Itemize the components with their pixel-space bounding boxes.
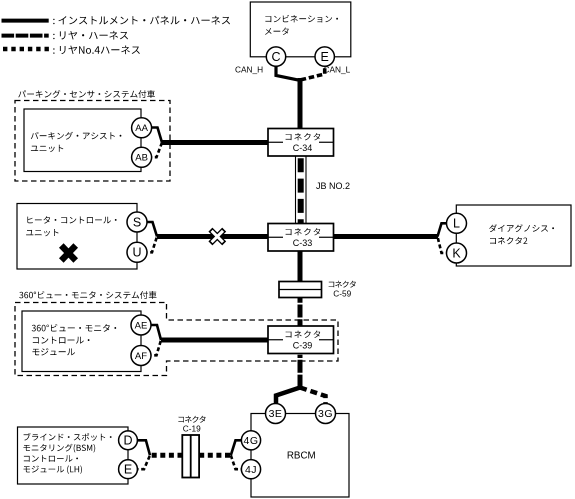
connector C-33 label (286, 228, 321, 235)
pin L (447, 213, 467, 233)
wire CAN_L from meter pin E to bus junction (dashed) (301, 60, 325, 80)
svg-text:3E: 3E (269, 408, 283, 420)
pin AE (131, 315, 151, 335)
connector C-39 label (286, 331, 321, 338)
360 view module label line2 (33, 337, 90, 344)
wire branch to RBCM pin 4G (231, 440, 251, 455)
combination meter label line1 (265, 15, 338, 23)
svg-text:RBCM: RBCM (287, 450, 316, 461)
parking assist unit label line1 (31, 132, 122, 140)
connector C-34 label (286, 133, 321, 140)
BSM label line2 (24, 444, 96, 453)
pin 4G (241, 431, 260, 450)
svg-text:C-34: C-34 (293, 143, 313, 153)
wire heater pin U branch (dashed) (137, 237, 157, 253)
svg-text:C-59: C-59 (333, 288, 351, 298)
wire main CAN bus vertical: junction to connector C-34 (298, 78, 303, 140)
svg-text:E: E (321, 50, 329, 64)
diagnosis connector 2 box (456, 205, 571, 266)
pin AA (132, 118, 152, 138)
svg-text:AE: AE (135, 320, 148, 331)
wire fork to RBCM pin 3G (dashed) (300, 388, 326, 410)
360 view system condition label (19, 291, 156, 299)
connector C-59 label (329, 281, 356, 288)
heater control unit box (17, 204, 137, 270)
svg-text:L: L (453, 217, 460, 231)
svg-text:AB: AB (135, 153, 148, 164)
connector C-19 box (182, 435, 199, 478)
svg-text:AF: AF (135, 351, 147, 362)
legend: rear No.4 harness (dotted) (3, 47, 49, 52)
wire rear harness connector C-59 to connector C-39 (thick dashed) (298, 297, 303, 326)
svg-text:CAN_H: CAN_H (235, 65, 263, 75)
legend label 3 (53, 46, 140, 55)
wire BSM pin D branch (128, 440, 150, 455)
wire rear No.4 harness BSM to connector C-19 (dotted) (150, 453, 183, 458)
BSM label line1 (24, 433, 112, 441)
wire 360-view module to connector C-39 (161, 338, 270, 343)
wire heater to connector C-33 (157, 234, 270, 239)
svg-text:AA: AA (135, 123, 148, 134)
combination meter box (250, 2, 350, 57)
wire parking pin AB branch (dashed) (142, 143, 162, 158)
svg-text:3G: 3G (318, 408, 333, 420)
BSM control module box (18, 427, 129, 484)
360 view module label line1 (32, 324, 117, 332)
splice X mark on heater wire (outlined) (210, 230, 224, 244)
svg-text:C: C (271, 50, 280, 64)
wire diagnosis pin K branch (dashed) (438, 237, 457, 254)
parking sensor system dashed enclosure (15, 101, 170, 182)
heater control unit label line1 (27, 216, 116, 223)
svg-text:4G: 4G (243, 435, 258, 447)
360 view monitor control module box (22, 311, 141, 372)
pin 4J (241, 460, 260, 479)
connector C-39 box (268, 326, 334, 354)
diagnosis connector 2 label line2 (490, 237, 527, 244)
parking assist unit box (24, 109, 141, 172)
wire parking pin AA branch (142, 128, 162, 143)
pin C (266, 47, 285, 66)
pin E (119, 460, 138, 479)
parking system condition label (18, 90, 155, 98)
JB NO.2 channel left rail (295, 156, 297, 224)
wire parking to connector C-34 (162, 140, 270, 145)
connector C-33 box (268, 224, 334, 252)
pin 3G (316, 404, 336, 424)
wire 360-view pin AF branch (dashed) (141, 340, 161, 355)
wire fork to RBCM pin 3E (276, 388, 300, 405)
combination meter label line2 (265, 28, 289, 35)
wire branch to RBCM pin 4J (dashed) (231, 455, 251, 469)
BSM label line3 (24, 455, 78, 462)
svg-text:E: E (124, 463, 132, 477)
wire CAN_H from meter pin C to bus junction (276, 60, 299, 80)
pin 3E (266, 404, 286, 424)
legend: rear harness (dashed) (2, 34, 49, 38)
wire diagnosis pin L branch (438, 223, 457, 236)
legend label 1 (53, 16, 230, 25)
wire rear harness connector C-39 down to fork (thick dashed) (298, 355, 303, 388)
connector C-59 box (279, 282, 322, 298)
JB NO.2 channel right rail (305, 156, 307, 224)
wire connector C-33 to diagnosis connector 2 (332, 234, 438, 239)
360 view module label line3 (32, 348, 75, 355)
RBCM box (251, 414, 349, 498)
svg-text:C-19: C-19 (183, 423, 201, 433)
pin S (127, 212, 147, 232)
diagnosis connector 2 label line1 (489, 224, 554, 232)
svg-text:JB NO.2: JB NO.2 (316, 181, 350, 191)
pin E (315, 47, 334, 66)
wire rear No.4 harness connector C-19 to RBCM fork (dotted) (199, 453, 231, 458)
BSM label line4 (24, 465, 83, 474)
pin U (127, 242, 147, 262)
wire connector C-33 down to connector C-59 (298, 251, 303, 283)
wire heater pin S branch (137, 222, 157, 237)
svg-text:C-39: C-39 (293, 341, 313, 351)
pin AF (131, 346, 151, 366)
wire 360-view pin AE branch (141, 325, 161, 340)
svg-text:U: U (132, 246, 141, 260)
svg-text:K: K (452, 246, 461, 260)
svg-text:D: D (123, 434, 132, 448)
connector C-34 box (268, 129, 334, 157)
legend: instrument panel harness (solid) (2, 19, 49, 23)
360 view system dashed enclosure (15, 303, 338, 376)
pin AB (132, 147, 152, 167)
heater box X mark (61, 246, 75, 261)
svg-text:C-33: C-33 (293, 238, 313, 248)
wire rear harness through JB NO.2 (thick dashed) (298, 156, 304, 224)
svg-text:4J: 4J (245, 464, 257, 476)
wire BSM pin E branch (dashed) (128, 455, 150, 469)
svg-text:S: S (133, 215, 141, 229)
pin D (119, 431, 138, 450)
connector C-19 label (178, 416, 205, 423)
heater control unit label line2 (26, 229, 58, 236)
legend label 2 (53, 31, 128, 40)
pin K (447, 243, 467, 263)
parking assist unit label line2 (31, 145, 63, 152)
